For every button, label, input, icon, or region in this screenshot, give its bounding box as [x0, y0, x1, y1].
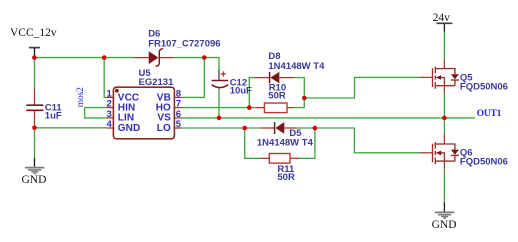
svg-text:24v: 24v — [433, 12, 451, 24]
svg-text:1uF: 1uF — [45, 110, 62, 121]
svg-text:4: 4 — [107, 119, 113, 130]
svg-text:50R: 50R — [277, 172, 295, 183]
svg-text:GND: GND — [22, 174, 47, 186]
svg-text:10uF: 10uF — [230, 85, 252, 96]
svg-text:EG2131: EG2131 — [139, 77, 175, 88]
svg-text:OUT1: OUT1 — [477, 109, 502, 119]
svg-text:5: 5 — [176, 119, 182, 130]
svg-text:FQD50N06: FQD50N06 — [460, 157, 508, 168]
svg-text:mos2: mos2 — [76, 87, 86, 107]
svg-text:GND: GND — [432, 219, 457, 231]
svg-text:1N4148W T4: 1N4148W T4 — [257, 138, 314, 149]
svg-text:FQD50N06: FQD50N06 — [460, 82, 508, 93]
svg-text:1N4148W T4: 1N4148W T4 — [268, 61, 325, 72]
svg-text:FR107_C727096: FR107_C727096 — [148, 38, 220, 49]
svg-text:LO: LO — [157, 123, 171, 134]
svg-text:50R: 50R — [268, 91, 286, 102]
svg-text:GND: GND — [118, 123, 141, 134]
svg-text:VCC_12v: VCC_12v — [10, 27, 57, 39]
